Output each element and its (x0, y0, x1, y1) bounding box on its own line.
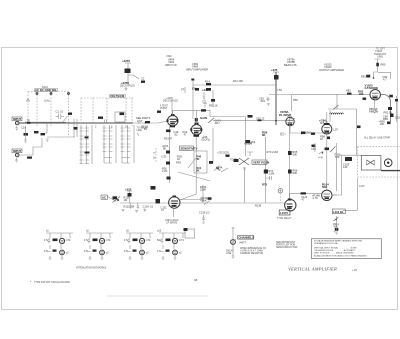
capacitor C55 (259, 97, 270, 106)
svg-text:L53: L53 (278, 88, 283, 92)
svg-text:473: 473 (146, 238, 151, 242)
svg-text:50K: 50K (293, 153, 298, 157)
wire x244 down (244, 167, 246, 203)
svg-text:VERTICAL AMPLIFIER: VERTICAL AMPLIFIER (288, 266, 337, 271)
attenuator cell 3 (124, 229, 153, 260)
svg-text:R82: R82 (346, 89, 351, 93)
wire x213 column (212, 90, 214, 163)
svg-text:680: 680 (334, 225, 339, 229)
svg-text:+ 45: + 45 (352, 269, 357, 272)
delay line label box 2 (332, 209, 345, 214)
resistor R3 1M (27, 157, 32, 159)
svg-text:1M: 1M (124, 198, 128, 202)
svg-text:17x: 17x (44, 249, 49, 253)
label C96 (319, 119, 328, 126)
wire tube5 right (332, 194, 337, 196)
svg-text:R56: R56 (293, 98, 298, 102)
tube V1063 (322, 190, 332, 200)
svg-text:VERT POSITION . . . . . TRACE: VERT POSITION . . . . . TRACE CENTERED (314, 252, 354, 255)
svg-text:C135 1/2: C135 1/2 (199, 211, 210, 215)
resistor R98 (320, 135, 330, 142)
svg-text:INPUT CF: INPUT CF (165, 63, 177, 67)
wire tube1 cathode column (169, 126, 171, 183)
svg-text:50K: 50K (322, 185, 327, 189)
resistor R52 on rail (274, 75, 279, 80)
capacitor C3 (74, 119, 77, 137)
svg-text:TYPE 536 CRT OSCILLOSCOPE: TYPE 536 CRT OSCILLOSCOPE (34, 281, 70, 284)
svg-text:RAIN: RAIN (42, 86, 48, 89)
supply +225 lower (125, 187, 132, 203)
coil L95 (330, 113, 344, 114)
label +100V decoupled (163, 97, 178, 103)
svg-text:17x: 17x (157, 249, 162, 253)
wire lower signal line (120, 202, 285, 204)
label TP (181, 87, 185, 93)
page border frame (2, 48, 398, 310)
svg-text:50K: 50K (293, 171, 298, 175)
svg-text:INPUT: INPUT (13, 117, 22, 121)
svg-text:OUTPUT AMPLIFIER: OUTPUT AMPLIFIER (319, 68, 344, 72)
wire bus doubled (25, 121, 66, 123)
svg-text:POINT: POINT (160, 107, 168, 110)
wire x357 lower (343, 178, 357, 210)
wire +225 rail (275, 72, 277, 125)
resistor R14 (192, 79, 243, 91)
svg-text:CF DRIVE: CF DRIVE (166, 222, 178, 225)
wire pot jog 337 (328, 94, 357, 109)
resistor R33 on mid line (256, 116, 265, 121)
tube V1083 (285, 199, 296, 211)
wire x330 down (329, 110, 331, 122)
svg-text:OPERATED AT 117V LINE: OPERATED AT 117V LINE (314, 242, 338, 245)
svg-text:4.7K: 4.7K (313, 196, 319, 200)
sensitivity box (180, 146, 198, 151)
supply +225 dcpl mid (202, 88, 210, 108)
x203 column (199, 185, 210, 223)
svg-text:L97: L97 (334, 128, 339, 132)
label +500V (244, 142, 252, 146)
svg-text:2K: 2K (196, 169, 200, 173)
svg-text:LIST: LIST (137, 119, 143, 123)
svg-text:100: 100 (380, 122, 385, 126)
svg-text:2.2K: 2.2K (162, 169, 168, 173)
svg-text:INPUT: INPUT (13, 149, 22, 153)
wire tube V493 out (180, 199, 203, 201)
input connector J2 (12, 149, 22, 157)
resistor R84 (358, 90, 364, 97)
resistor R84b (363, 98, 367, 100)
label below tube (369, 100, 378, 113)
svg-text:1K: 1K (320, 137, 323, 141)
pot wiper delay (333, 105, 339, 110)
wire plate line H2 (193, 84, 276, 86)
resistor R2 on bus (27, 119, 31, 124)
resistor R65 50K (288, 151, 292, 155)
title beam (284, 58, 297, 67)
svg-text:J4077: J4077 (239, 241, 247, 245)
svg-text:+225 DCPL: +225 DCPL (217, 152, 230, 155)
tube V493 (169, 196, 180, 209)
wire grid riser (171, 100, 173, 114)
note text mid (276, 241, 298, 249)
svg-text:L110 DL: L110 DL (333, 210, 344, 214)
connector box right of attenuators (184, 228, 195, 238)
connector J label (343, 157, 352, 169)
svg-text:SENSITIVITY: SENSITIVITY (181, 147, 198, 151)
svg-text:1K: 1K (177, 157, 180, 161)
resistor R140 (301, 192, 321, 201)
resistor R31 (209, 99, 218, 108)
resistor R9 above bus (98, 117, 107, 124)
svg-text:C92: C92 (395, 116, 400, 120)
thick output line (381, 170, 400, 172)
svg-text:R23 47: R23 47 (164, 137, 173, 141)
switch contacts on bus (27, 122, 145, 123)
svg-text:+225V: +225V (202, 88, 210, 92)
svg-text:C99: C99 (311, 147, 316, 151)
wire to box (337, 143, 361, 191)
svg-text:AC: AC (102, 196, 106, 200)
resistor R29 on plate line (201, 109, 206, 111)
label see parts (136, 116, 151, 123)
svg-text:ATTENUATOR NETWORKS: ATTENUATOR NETWORKS (76, 267, 107, 270)
faint fold line (107, 295, 208, 297)
svg-text:R91 56: R91 56 (384, 111, 393, 115)
resistor R136 (255, 204, 262, 208)
resistor R88 cluster (379, 107, 394, 126)
label delay driver (279, 110, 291, 117)
delay line box (361, 155, 381, 170)
label small x356 (357, 126, 361, 129)
neon B67 (278, 189, 282, 193)
svg-text:CHANNELS: CHANNELS (238, 236, 254, 240)
dashed delay frame (357, 147, 400, 177)
ground input2 (15, 158, 18, 162)
svg-text:C1 .01: C1 .01 (56, 110, 64, 114)
attenuator cells bottom (44, 229, 186, 260)
svg-text:GAIN: GAIN (200, 116, 207, 120)
wire x265 column (265, 137, 267, 203)
resistor R132 (208, 197, 212, 200)
wire tube2 cathode to V493 (180, 137, 196, 200)
svg-text:C11: C11 (202, 100, 207, 104)
svg-text:+225V: +225V (122, 59, 130, 63)
range box (194, 151, 207, 173)
gain adj wiper (200, 116, 221, 125)
tube V484A (167, 114, 179, 127)
label test point (157, 105, 169, 113)
svg-text:4.7: 4.7 (383, 78, 387, 82)
supply +225 top (120, 59, 145, 91)
resistor R60 (262, 131, 315, 138)
wire curve right (381, 95, 391, 123)
wire tube out down (290, 126, 330, 133)
svg-text:473: 473 (106, 238, 111, 242)
svg-text:INPUT AMPLIFIER: INPUT AMPLIFIER (186, 68, 208, 72)
lower left AC box (101, 195, 108, 200)
attenuator ladder B (103, 125, 117, 163)
svg-text:ALL DELAY LINE STRIP: ALL DELAY LINE STRIP (364, 137, 391, 140)
svg-text:R121 2M: R121 2M (124, 205, 135, 209)
svg-text:R39: R39 (176, 161, 181, 165)
svg-text:10K: 10K (359, 92, 364, 96)
pot wiper sens (176, 155, 210, 182)
svg-text:R64: R64 (251, 140, 256, 144)
wire tube V1083 top (290, 193, 323, 198)
supply tick mid (247, 152, 253, 156)
svg-text:8K: 8K (163, 147, 166, 151)
attenuator cell 1 (44, 229, 73, 260)
wire line to right H116 (210, 117, 245, 157)
svg-text:V494: V494 (166, 55, 172, 58)
svg-text:17x: 17x (124, 249, 129, 253)
resistor R91 (384, 99, 400, 124)
svg-text:R14: R14 (205, 80, 210, 84)
junction caps right (248, 114, 293, 118)
svg-text:BEAM LTS: BEAM LTS (284, 63, 297, 67)
label pair C18 82 (174, 130, 179, 137)
svg-text:x10: x10 (157, 229, 162, 233)
svg-text:(DCPL): (DCPL) (202, 138, 211, 142)
svg-text:120: 120 (343, 165, 348, 169)
attenuator ladder A (80, 125, 93, 164)
contact and blob near sensitivity (209, 161, 220, 171)
capacitor C1 (56, 110, 73, 123)
svg-text:+225: +225 (271, 68, 278, 72)
supply V1023 (361, 48, 391, 82)
ladder A blobs (85, 137, 90, 154)
wire input2 (19, 138, 42, 155)
svg-text:ADJ: ADJ (215, 121, 221, 125)
svg-text:CARBON RESISTOR: CARBON RESISTOR (240, 252, 263, 255)
label pair R22 47 (183, 130, 188, 137)
vert position box (252, 160, 269, 165)
wire x341 (332, 155, 342, 195)
switch SW1 box dashed (27, 86, 70, 137)
pot wiper right (325, 147, 342, 160)
svg-text:R136: R136 (255, 204, 262, 208)
svg-text:BLA ADJUSTMENT FOR DATA 10 VOL: BLA ADJUSTMENT FOR DATA 10 VOLT PANEL RE… (314, 255, 367, 258)
svg-text:LINE: LINE (137, 129, 143, 132)
svg-text:AB: AB (194, 279, 198, 282)
svg-text:680: 680 (335, 155, 340, 159)
wire plate up tube2 (173, 110, 210, 124)
svg-text:+225: +225 (161, 156, 167, 159)
delay line label box 1 (279, 210, 290, 215)
wire riser x193 (192, 85, 194, 119)
junction cluster right of tube (389, 95, 393, 98)
svg-text:TP: TP (181, 88, 185, 92)
svg-text:R80: R80 (381, 63, 386, 67)
resistor R5 cluster (34, 123, 75, 141)
resistor R64 cluster (246, 140, 256, 144)
label V? lower (151, 186, 161, 202)
svg-text:R70 2.2M: R70 2.2M (267, 150, 278, 154)
wire long mid line (213, 119, 289, 121)
resistor R21 (143, 121, 150, 131)
resistor R82 on line (346, 89, 352, 95)
note text small (226, 247, 267, 255)
svg-text:R12 100: R12 100 (233, 79, 243, 83)
svg-text:LINE: LINE (226, 252, 232, 255)
label below tube V493 (165, 209, 179, 225)
svg-text:L1070: L1070 (280, 211, 288, 215)
label +225 dcpl tube2 (202, 135, 211, 142)
svg-text:R72: R72 (262, 183, 268, 187)
wire jog to cap (269, 92, 292, 111)
tube V484B (190, 118, 202, 137)
lower mid connector cluster (231, 227, 254, 258)
label V1023 cathode (365, 84, 379, 91)
title V1023 output amplifier (319, 63, 344, 73)
svg-text:C107: C107 (359, 185, 365, 188)
supply +225 right top (271, 68, 279, 72)
svg-text:DECOUPLED: DECOUPLED (120, 85, 135, 88)
trimmer column right of ladders (153, 148, 156, 162)
label +225 decoupled right (217, 152, 238, 173)
wire main input bus (19, 122, 133, 124)
svg-text:VERT POSN: VERT POSN (253, 161, 269, 165)
voltage notes box (311, 239, 381, 259)
pot below box (333, 216, 339, 234)
attenuator ladder C (121, 125, 135, 163)
svg-text:SEMICONDUCTOR: SEMICONDUCTOR (276, 246, 298, 249)
box compensation (115, 112, 125, 122)
svg-text:473: 473 (66, 238, 71, 242)
wire x326 down (326, 134, 328, 190)
tube V1043 upper right (322, 123, 332, 134)
resistor R70 (262, 150, 278, 187)
svg-text:C124 .01: C124 .01 (143, 205, 154, 209)
wire x289 down (289, 119, 291, 200)
svg-text:C2: C2 (141, 77, 145, 81)
svg-text:17x: 17x (84, 249, 89, 253)
label to delay (137, 127, 149, 137)
svg-text:DECOUPLED: DECOUPLED (163, 100, 178, 103)
attenuator cell 4 (157, 229, 186, 260)
attenuator cell 2 (84, 229, 113, 260)
title V494 (165, 58, 177, 67)
connector CRT (384, 159, 392, 167)
tube V1023 (370, 90, 380, 100)
tube V378A (286, 117, 294, 125)
resistor R99 top (311, 143, 322, 159)
svg-text:680K: 680K (201, 199, 207, 203)
label R104 (322, 183, 329, 190)
svg-text:TYPE DELAY: TYPE DELAY (277, 217, 292, 220)
svg-text:C71: C71 (179, 238, 184, 242)
wire right edge column (396, 96, 398, 122)
wire H500 right (289, 118, 295, 120)
wire H4 to tube (292, 94, 370, 96)
svg-text:(CAL): (CAL) (44, 100, 50, 103)
resistor R1 cluster below bus (21, 126, 28, 143)
svg-text:220K: 220K (200, 188, 206, 192)
input connector J1 (12, 117, 22, 125)
contact labels under bus (95, 126, 144, 129)
svg-text:GRID: GRID (377, 56, 383, 59)
svg-text:.001: .001 (260, 99, 266, 103)
svg-text:R31 1K: R31 1K (209, 104, 218, 108)
resistor R130 (156, 201, 168, 212)
resistor R66 50K (288, 170, 292, 174)
resistor R23 (161, 130, 173, 180)
title input amplifier (186, 62, 208, 72)
svg-text:1.5M: 1.5M (269, 172, 275, 176)
pot vert position (234, 158, 250, 170)
svg-text:R81: R81 (361, 75, 366, 79)
wiper lower (108, 195, 131, 202)
svg-text:6K: 6K (262, 133, 266, 137)
switch SW2 box dashed (81, 94, 133, 126)
svg-text:5K: 5K (196, 157, 200, 161)
components below lower line (122, 203, 154, 213)
wire x356 tall (356, 109, 358, 155)
contact g (319, 151, 323, 159)
